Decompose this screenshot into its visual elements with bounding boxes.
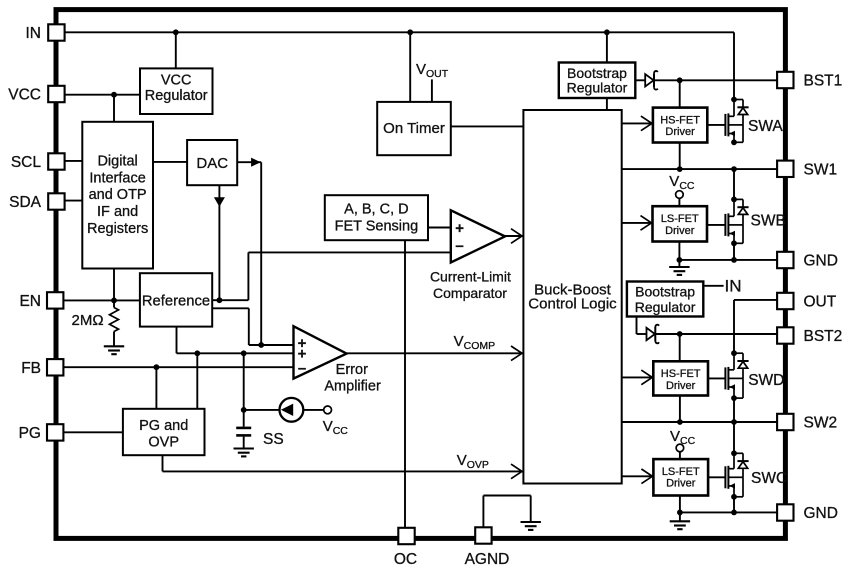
svg-text:SS: SS xyxy=(263,431,284,448)
svg-text:DAC: DAC xyxy=(196,155,228,172)
svg-text:GND: GND xyxy=(804,505,838,522)
svg-text:SW1: SW1 xyxy=(804,161,838,178)
svg-text:PG: PG xyxy=(19,425,41,442)
svg-text:IN: IN xyxy=(26,25,42,42)
svg-text:Current-Limit: Current-Limit xyxy=(430,269,511,285)
svg-text:PG and: PG and xyxy=(139,418,188,434)
svg-text:SWB: SWB xyxy=(751,212,786,229)
svg-text:A, B, C, D: A, B, C, D xyxy=(344,202,408,218)
svg-text:SDA: SDA xyxy=(9,194,42,211)
svg-text:Driver: Driver xyxy=(665,225,695,237)
svg-text:SW2: SW2 xyxy=(804,415,838,432)
svg-text:BST2: BST2 xyxy=(804,328,843,345)
svg-text:FET Sensing: FET Sensing xyxy=(335,219,419,235)
svg-text:IF and: IF and xyxy=(97,204,138,220)
svg-text:On Timer: On Timer xyxy=(383,120,445,137)
svg-text:Digital: Digital xyxy=(97,153,137,169)
svg-text:SWC: SWC xyxy=(751,470,787,487)
svg-text:GND: GND xyxy=(804,253,838,270)
svg-text:Reference: Reference xyxy=(142,293,210,309)
svg-text:VCC: VCC xyxy=(161,72,192,88)
svg-text:BST1: BST1 xyxy=(804,73,843,90)
svg-text:HS-FET: HS-FET xyxy=(660,114,700,126)
svg-text:AGND: AGND xyxy=(465,551,510,568)
svg-text:Interface: Interface xyxy=(89,170,145,186)
svg-text:OVP: OVP xyxy=(148,435,179,451)
svg-text:–: – xyxy=(455,237,463,254)
svg-text:Control Logic: Control Logic xyxy=(528,295,617,312)
svg-text:Registers: Registers xyxy=(87,221,148,237)
svg-text:2MΩ: 2MΩ xyxy=(72,312,104,329)
svg-text:LS-FET: LS-FET xyxy=(662,466,700,478)
svg-text:Regulator: Regulator xyxy=(635,299,696,315)
svg-text:–: – xyxy=(298,360,306,377)
svg-text:SWD: SWD xyxy=(748,372,784,389)
svg-text:Driver: Driver xyxy=(666,478,696,490)
svg-text:SWA: SWA xyxy=(748,118,783,135)
svg-text:+: + xyxy=(455,220,464,237)
svg-text:HS-FET: HS-FET xyxy=(661,368,701,380)
svg-text:Amplifier: Amplifier xyxy=(324,379,381,395)
svg-text:Comparator: Comparator xyxy=(433,285,507,301)
svg-text:Bootstrap: Bootstrap xyxy=(635,284,695,300)
svg-text:IN: IN xyxy=(725,277,742,296)
svg-text:SCL: SCL xyxy=(11,154,42,171)
svg-text:OUT: OUT xyxy=(804,294,837,311)
svg-text:FB: FB xyxy=(21,360,41,377)
svg-text:OC: OC xyxy=(394,551,417,568)
svg-text:EN: EN xyxy=(19,293,41,310)
svg-text:LS-FET: LS-FET xyxy=(661,213,699,225)
svg-text:Error: Error xyxy=(336,362,368,378)
svg-text:Regulator: Regulator xyxy=(567,79,628,95)
svg-text:VCC: VCC xyxy=(8,87,41,104)
svg-text:Driver: Driver xyxy=(666,380,696,392)
svg-text:and OTP: and OTP xyxy=(89,187,147,203)
svg-text:Regulator: Regulator xyxy=(145,88,208,104)
svg-text:Driver: Driver xyxy=(665,126,695,138)
